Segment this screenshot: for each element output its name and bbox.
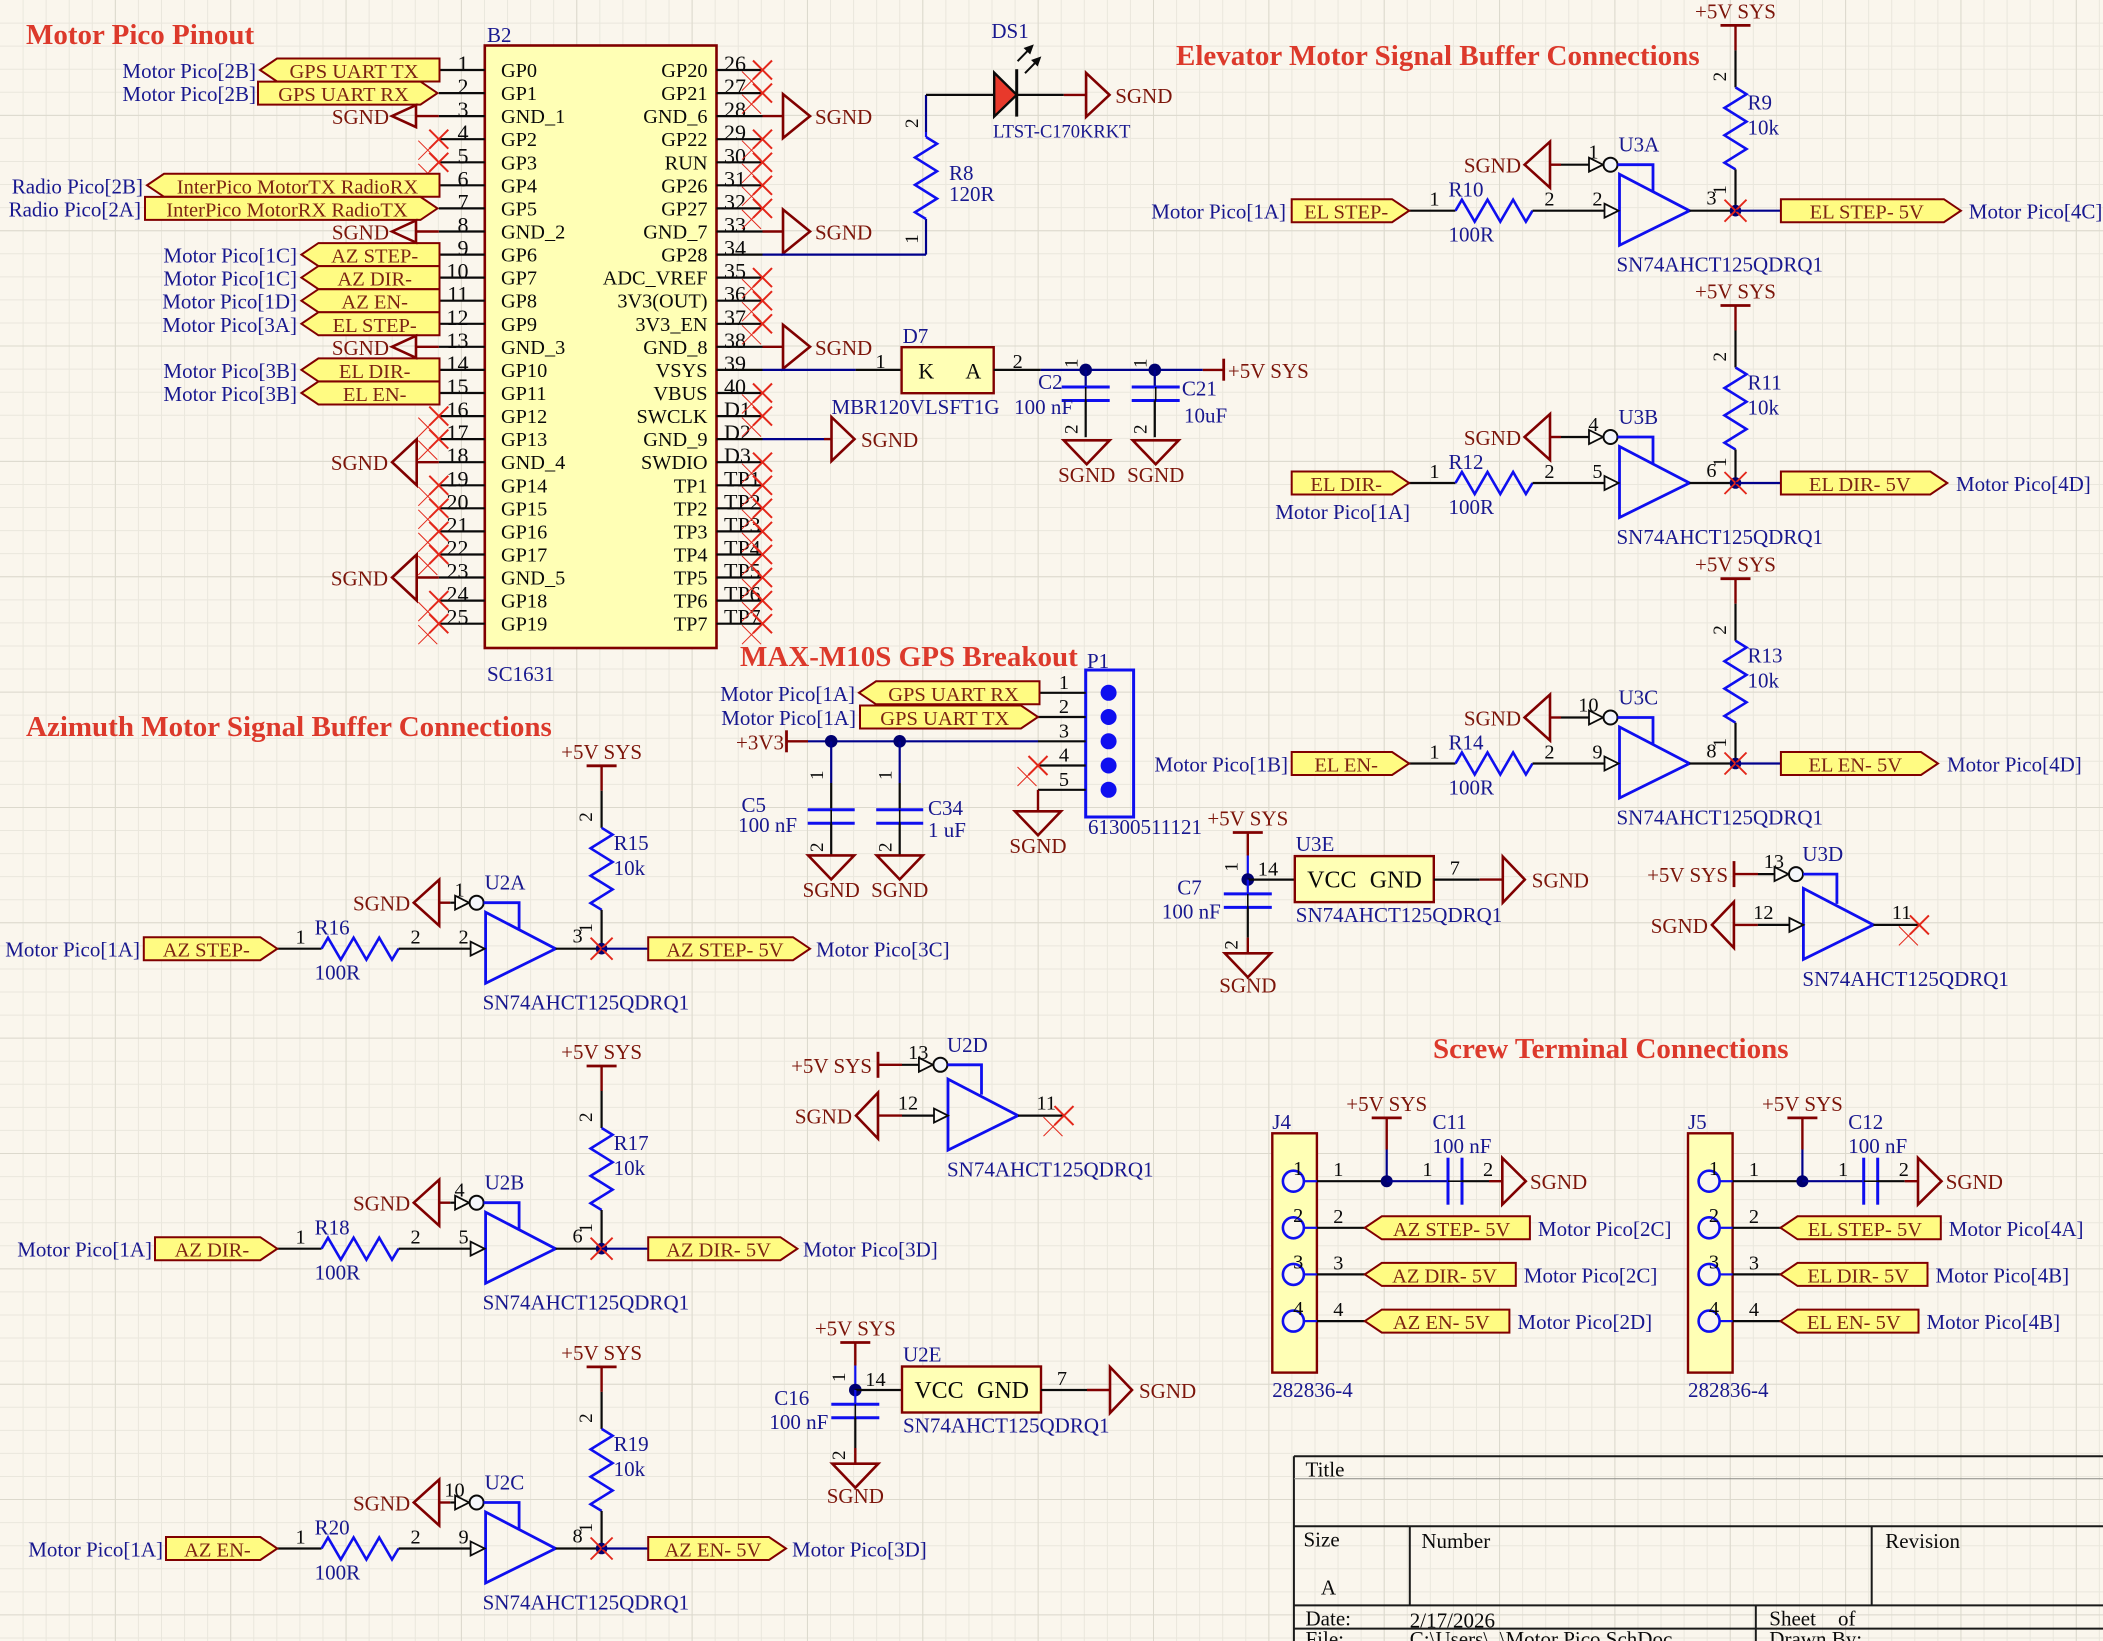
- wire pin D2 to SGND: [763, 438, 825, 440]
- svg-text:Motor Pico[1A]: Motor Pico[1A]: [1151, 200, 1286, 224]
- B2 pin D1 SWCLK: [637, 397, 763, 428]
- svg-text:SN74AHCT125QDRQ1: SN74AHCT125QDRQ1: [947, 1158, 1154, 1182]
- svg-text:SGND: SGND: [1464, 154, 1521, 178]
- wire U3B output: [1690, 460, 1736, 483]
- no-connect marker pin D3: [742, 453, 772, 483]
- B2 pin 23 GND_5: [439, 559, 565, 590]
- svg-text:Motor Pico[4B]: Motor Pico[4B]: [1936, 1263, 2070, 1287]
- svg-text:1: 1: [295, 927, 305, 949]
- B2 pin 37 3V3_EN: [635, 305, 762, 336]
- no-connect marker U2D pin 11: [1044, 1106, 1074, 1136]
- svg-text:24: 24: [447, 582, 469, 607]
- svg-text:Motor Pico[1C]: Motor Pico[1C]: [163, 244, 297, 268]
- wire SGND to U3B pin 4: [1561, 436, 1590, 438]
- svg-text:SGND: SGND: [1532, 869, 1589, 893]
- svg-text:2: 2: [875, 843, 896, 853]
- capacitor C5 100 nF: [738, 741, 855, 855]
- B2 pin 12 GP9: [439, 305, 537, 336]
- capacitor C12 100 nF: [1838, 1110, 1909, 1205]
- wire pin39 VSYS to D7: [763, 369, 902, 371]
- svg-text:GND: GND: [1370, 868, 1422, 894]
- svg-text:TP4: TP4: [674, 545, 708, 567]
- section title: Elevator Motor Signal Buffer Connections: [1176, 40, 1700, 72]
- wire +5V to U3E: [1247, 856, 1249, 880]
- junction U2A output node: [591, 938, 613, 960]
- svg-text:EL STEP-: EL STEP-: [333, 315, 417, 337]
- B2 pin 18 GND_4: [439, 443, 565, 474]
- svg-text:2: 2: [459, 927, 469, 949]
- net label Motor Pico[2B] (pin2): [122, 82, 256, 106]
- svg-text:Motor Pico[3D]: Motor Pico[3D]: [803, 1238, 938, 1262]
- svg-text:C16: C16: [774, 1386, 809, 1410]
- resistor R16 100R: [295, 916, 420, 985]
- svg-text:16: 16: [447, 397, 469, 422]
- svg-text:9: 9: [458, 236, 469, 261]
- capacitor C21 10uF: [1131, 359, 1228, 438]
- svg-text:1: 1: [876, 351, 886, 373]
- no-connect marker pin TP5: [742, 568, 772, 598]
- svg-text:GP18: GP18: [501, 591, 547, 613]
- power port SGND (pin 18): [331, 439, 439, 485]
- svg-text:C7: C7: [1177, 876, 1202, 900]
- wire U3B to port EL DIR- 5V: [1736, 482, 1781, 484]
- svg-text:1: 1: [1333, 1159, 1343, 1181]
- svg-text:SGND: SGND: [331, 451, 388, 475]
- J5 pin 2: [1699, 1205, 1759, 1239]
- no-connect marker U3D pin 11: [1899, 915, 1929, 945]
- no-connect marker pin D1: [742, 407, 772, 437]
- net label Radio Pico[2A]: [9, 197, 141, 221]
- svg-text:100R: 100R: [315, 1561, 361, 1585]
- svg-text:1: 1: [454, 880, 464, 902]
- no-connect marker pin 19: [418, 476, 448, 506]
- svg-text:100 nF: 100 nF: [1162, 900, 1221, 924]
- svg-text:SGND: SGND: [1115, 84, 1172, 108]
- svg-text:SN74AHCT125QDRQ1: SN74AHCT125QDRQ1: [1617, 525, 1824, 549]
- svg-text:SN74AHCT125QDRQ1: SN74AHCT125QDRQ1: [1617, 806, 1824, 830]
- svg-text:+5V SYS: +5V SYS: [1207, 807, 1288, 831]
- wire U3A to port EL STEP- 5V: [1736, 210, 1781, 212]
- svg-text:Motor Pico[1A]: Motor Pico[1A]: [28, 1538, 163, 1562]
- svg-text:2: 2: [458, 74, 469, 99]
- svg-text:3: 3: [1333, 1252, 1343, 1274]
- svg-text:100R: 100R: [315, 1261, 361, 1285]
- svg-text:10k: 10k: [614, 1457, 646, 1481]
- power port SGND (C5): [803, 855, 860, 902]
- port EL DIR-: [1292, 472, 1409, 497]
- B2 pin TP7 TP7: [674, 605, 763, 636]
- junction U3B output node: [1725, 472, 1747, 494]
- capacitor C2 100 nF: [1014, 359, 1110, 438]
- svg-text:InterPico MotorRX RadioTX: InterPico MotorRX RadioTX: [166, 199, 408, 221]
- wire port to R16: [277, 948, 321, 950]
- svg-text:GND_3: GND_3: [501, 337, 565, 359]
- svg-text:SWDIO: SWDIO: [641, 452, 707, 474]
- svg-text:100R: 100R: [1449, 776, 1495, 800]
- svg-text:GP10: GP10: [501, 360, 547, 382]
- svg-text:4: 4: [1333, 1299, 1343, 1321]
- B2 pin 16 GP12: [439, 397, 547, 428]
- power port SGND (C34): [871, 855, 928, 902]
- B2 pin 27 GP21: [661, 74, 762, 105]
- svg-text:Radio Pico[2A]: Radio Pico[2A]: [9, 197, 141, 221]
- svg-text:13: 13: [1764, 851, 1784, 873]
- port EL EN-: [1292, 752, 1409, 777]
- port EL STEP-: [1292, 199, 1409, 224]
- svg-text:6: 6: [458, 166, 469, 191]
- power port SGND (pin 28): [763, 94, 873, 138]
- svg-text:VCC: VCC: [1307, 868, 1356, 894]
- svg-text:U3A: U3A: [1619, 133, 1661, 157]
- no-connect marker pin 20: [418, 499, 448, 529]
- svg-text:19: 19: [447, 466, 469, 491]
- svg-text:EL STEP-: EL STEP-: [1304, 202, 1388, 224]
- wire J5 pin3 to port: [1733, 1273, 1781, 1275]
- net label Motor Pico[1A] (AZ EN-): [28, 1538, 163, 1562]
- svg-text:SN74AHCT125QDRQ1: SN74AHCT125QDRQ1: [483, 1591, 690, 1615]
- svg-text:1: 1: [1710, 738, 1731, 748]
- no-connect marker pin 17: [418, 430, 448, 460]
- svg-text:SGND: SGND: [1058, 463, 1115, 487]
- port EL STEP- 5V (J5): [1781, 1216, 1941, 1241]
- wire +5V to U3D pin 13: [1758, 873, 1775, 875]
- power pins box U2E SN74AHCT125QDRQ1: [902, 1343, 1110, 1438]
- svg-text:1: 1: [1429, 461, 1439, 483]
- net label Motor Pico[1A] (AZ STEP-): [5, 938, 140, 962]
- buffer U3C SN74AHCT125QDRQ1: [1617, 686, 1824, 830]
- power port SGND (U3B OE): [1464, 414, 1561, 460]
- svg-text:GPS UART TX: GPS UART TX: [880, 708, 1009, 730]
- no-connect marker pin 37: [742, 314, 772, 344]
- net label Motor Pico[4B] (J5 pin3): [1936, 1263, 2070, 1287]
- P1 pin 3: [1038, 720, 1117, 749]
- svg-text:C:\Users\..\Motor Pico.SchDoc: C:\Users\..\Motor Pico.SchDoc: [1410, 1627, 1673, 1641]
- svg-text:TP6: TP6: [674, 591, 708, 613]
- svg-text:R9: R9: [1748, 90, 1773, 114]
- svg-text:10: 10: [1578, 695, 1598, 717]
- svg-text:GP5: GP5: [501, 198, 537, 220]
- svg-text:TP3: TP3: [674, 521, 708, 543]
- power port +5V SYS (R17): [561, 1040, 642, 1091]
- svg-text:GP28: GP28: [661, 245, 707, 267]
- wire to U3E pin 14: [1221, 859, 1295, 881]
- svg-text:+5V SYS: +5V SYS: [561, 1341, 642, 1365]
- svg-text:TP5: TP5: [674, 568, 708, 590]
- svg-text:U2A: U2A: [485, 871, 527, 895]
- svg-text:EL DIR-: EL DIR-: [339, 361, 411, 383]
- svg-text:SGND: SGND: [1127, 463, 1184, 487]
- svg-text:Motor Pico[1A]: Motor Pico[1A]: [721, 706, 856, 730]
- B2 pin 14 GP10: [439, 351, 547, 382]
- svg-text:39: 39: [724, 351, 746, 376]
- svg-text:2: 2: [1710, 72, 1731, 82]
- svg-text:+5V SYS: +5V SYS: [815, 1317, 896, 1341]
- svg-text:2: 2: [1059, 696, 1069, 718]
- B2 pin 26 GP20: [661, 51, 762, 82]
- svg-text:Drawn By:: Drawn By:: [1769, 1627, 1862, 1641]
- svg-text:U2D: U2D: [947, 1033, 988, 1057]
- net label Motor Pico[1A] (EL DIR-): [1275, 500, 1410, 524]
- wire U3C output: [1690, 741, 1736, 764]
- svg-text:AZ STEP- 5V: AZ STEP- 5V: [1393, 1219, 1511, 1241]
- svg-text:34: 34: [724, 236, 746, 261]
- svg-text:25: 25: [447, 605, 469, 630]
- svg-text:TP7: TP7: [674, 614, 708, 636]
- svg-text:Motor Pico[2C]: Motor Pico[2C]: [1524, 1263, 1658, 1287]
- svg-text:12: 12: [1753, 902, 1773, 924]
- net label Motor Pico[3C]: [816, 938, 950, 962]
- wire port to R12: [1409, 482, 1455, 484]
- wire J4 pin2 to port: [1317, 1227, 1365, 1229]
- svg-text:R14: R14: [1449, 731, 1485, 755]
- svg-text:14: 14: [1258, 859, 1278, 881]
- port AZ DIR-: [155, 1237, 277, 1262]
- B2 pin 11 GP8: [439, 282, 537, 313]
- wire P1 pin5 to SGND: [1037, 790, 1039, 812]
- B2 pin 10 GP7: [439, 259, 537, 290]
- power port SGND (U2B OE): [353, 1180, 450, 1226]
- svg-text:5: 5: [458, 143, 469, 168]
- svg-text:GP12: GP12: [501, 406, 547, 428]
- port EL EN- 5V: [1781, 752, 1938, 777]
- svg-text:Motor Pico Pinout: Motor Pico Pinout: [26, 19, 255, 51]
- wire U3A output: [1690, 188, 1736, 211]
- no-connect marker pin 36: [742, 291, 772, 321]
- wire J4 pin4 to port: [1317, 1320, 1365, 1322]
- net label Motor Pico[1A] (AZ DIR-): [17, 1238, 152, 1262]
- port AZ DIR- 5V (J4): [1365, 1263, 1516, 1288]
- svg-text:2: 2: [1483, 1159, 1493, 1181]
- svg-text:AZ EN-: AZ EN-: [341, 292, 408, 314]
- svg-text:SGND: SGND: [1651, 914, 1708, 938]
- wire port to R10: [1409, 210, 1455, 212]
- power port +5V SYS (J5): [1762, 1092, 1843, 1150]
- svg-text:3V3(OUT): 3V3(OUT): [617, 291, 707, 313]
- svg-text:10k: 10k: [614, 1156, 646, 1180]
- wire +5V to U2E: [854, 1366, 856, 1391]
- junction J5 pin1 node: [1796, 1175, 1808, 1187]
- port GPS UART TX: [260, 59, 440, 84]
- power port +5V SYS (R11): [1695, 280, 1776, 331]
- svg-text:AZ STEP-: AZ STEP-: [163, 940, 250, 962]
- svg-text:Motor Pico[1A]: Motor Pico[1A]: [17, 1238, 152, 1262]
- svg-text:SGND: SGND: [815, 105, 872, 129]
- svg-text:SGND: SGND: [795, 1105, 852, 1129]
- svg-text:Motor Pico[3D]: Motor Pico[3D]: [792, 1538, 927, 1562]
- svg-text:P1: P1: [1087, 649, 1109, 673]
- svg-text:VBUS: VBUS: [653, 383, 707, 405]
- svg-text:1: 1: [1061, 359, 1082, 369]
- svg-text:12: 12: [447, 305, 469, 330]
- net label Motor Pico[4B] (J5 pin4): [1927, 1310, 2061, 1334]
- B2 pin 8 GND_2: [439, 213, 565, 244]
- power port SGND (J4): [1502, 1158, 1587, 1205]
- connector P1 61300511121 body: [1086, 649, 1202, 839]
- power port SGND (DS1): [1064, 73, 1173, 117]
- port AZ STEP-: [144, 937, 277, 962]
- wire U2C output: [556, 1526, 602, 1549]
- no-connect marker pin 22: [418, 545, 448, 575]
- svg-text:SN74AHCT125QDRQ1: SN74AHCT125QDRQ1: [1802, 967, 2009, 991]
- buffer U3D SN74AHCT125QDRQ1: [1802, 842, 2009, 991]
- wire SGND to U2D pin 12: [902, 1114, 934, 1116]
- resistor R12 100R: [1429, 450, 1554, 519]
- svg-text:4: 4: [1709, 1298, 1719, 1320]
- svg-text:B2: B2: [487, 23, 512, 47]
- power port SGND (pin D2): [824, 417, 918, 461]
- port InterPico MotorTX RadioRX: [147, 174, 440, 199]
- component B2 Raspberry Pi Pico body SC1631: [485, 46, 717, 649]
- svg-text:1: 1: [1422, 1159, 1432, 1181]
- wire SGND to U2A pin 1: [450, 902, 455, 904]
- power port SGND (U3C OE): [1464, 695, 1561, 741]
- B2 pin 2 GP1: [439, 74, 537, 105]
- svg-text:AZ DIR- 5V: AZ DIR- 5V: [666, 1240, 771, 1262]
- svg-text:+5V SYS: +5V SYS: [1228, 359, 1309, 383]
- wire U2E pin 7 to SGND: [1041, 1368, 1110, 1390]
- B2 pin 19 GP14: [439, 466, 547, 497]
- svg-text:2: 2: [1333, 1206, 1343, 1228]
- svg-text:R10: R10: [1449, 178, 1484, 202]
- B2 pin D2 GND_9: [643, 420, 762, 451]
- section title: Motor Pico Pinout: [26, 19, 255, 51]
- B2 pin TP3 TP3: [674, 512, 763, 543]
- power port +3V3: [736, 730, 808, 754]
- svg-text:RUN: RUN: [665, 152, 708, 174]
- U3A OE pin 1 bubble: [1588, 142, 1617, 172]
- wire D7 anode to +5V SYS: [994, 369, 1203, 371]
- wire +5V to U2D pin 13: [902, 1064, 919, 1066]
- B2 pin 21 GP16: [439, 512, 547, 543]
- svg-text:+5V SYS: +5V SYS: [1762, 1092, 1843, 1116]
- wire U2A to port AZ STEP- 5V: [602, 948, 649, 950]
- B2 pin 13 GND_3: [439, 328, 565, 359]
- svg-text:1: 1: [1429, 189, 1439, 211]
- svg-text:C11: C11: [1433, 1110, 1467, 1134]
- svg-text:17: 17: [447, 420, 469, 445]
- power port +5V SYS (U2D): [791, 1052, 902, 1078]
- svg-text:1 uF: 1 uF: [928, 818, 966, 842]
- U2D input pin 12: [898, 1093, 948, 1123]
- wire U3D output pin 11: [1873, 902, 1919, 925]
- svg-text:GND_6: GND_6: [643, 106, 707, 128]
- power port SGND (C21): [1127, 440, 1184, 487]
- svg-text:R16: R16: [315, 916, 350, 940]
- svg-text:Motor Pico[4D]: Motor Pico[4D]: [1947, 753, 2082, 777]
- no-connect marker P1 pin 4: [1018, 756, 1048, 786]
- B2 pin 20 GP15: [439, 489, 547, 520]
- no-connect marker pin TP2: [742, 499, 772, 529]
- port AZ STEP- 5V (J4): [1365, 1216, 1530, 1241]
- net label Motor Pico[2C] (J4 pin2): [1538, 1217, 1672, 1241]
- svg-text:GP6: GP6: [501, 245, 537, 267]
- svg-text:Elevator Motor Signal Buffer C: Elevator Motor Signal Buffer Connections: [1176, 40, 1700, 72]
- svg-text:EL EN-: EL EN-: [343, 384, 407, 406]
- svg-text:K: K: [918, 359, 934, 384]
- no-connect marker pin 4: [418, 130, 448, 160]
- power port +5V SYS (R15): [561, 740, 642, 791]
- no-connect marker pin TP3: [742, 522, 772, 552]
- svg-text:1: 1: [1709, 1158, 1719, 1180]
- B2 pin 31 GP26: [661, 166, 762, 197]
- power port SGND (J5): [1918, 1158, 2003, 1205]
- svg-text:2: 2: [1899, 1159, 1909, 1181]
- power port +5V SYS (R19): [561, 1341, 642, 1392]
- wire R18 to U2B pin 5: [399, 1248, 471, 1250]
- power port SGND (pin 23): [331, 555, 439, 601]
- svg-text:100 nF: 100 nF: [1014, 395, 1073, 419]
- junction C21 tap: [1149, 364, 1162, 377]
- net label Motor Pico[2D] (J4 pin4): [1517, 1310, 1652, 1334]
- svg-text:A: A: [965, 359, 981, 384]
- svg-text:2: 2: [1131, 425, 1152, 435]
- net label Motor Pico[4A] (J5 pin2): [1949, 1217, 2084, 1241]
- net label Motor Pico[1C] (pin 9): [163, 244, 297, 268]
- net label Motor Pico[3D] (AZ DIR- 5V): [803, 1238, 938, 1262]
- U3B input pin 5: [1592, 461, 1618, 490]
- svg-text:5: 5: [459, 1227, 469, 1249]
- svg-text:GP27: GP27: [661, 198, 707, 220]
- svg-text:100R: 100R: [1449, 223, 1495, 247]
- svg-text:GND_9: GND_9: [643, 429, 707, 451]
- net label Motor Pico[4D] (EL DIR- 5V): [1956, 472, 2091, 496]
- svg-text:EL DIR- 5V: EL DIR- 5V: [1807, 1265, 1909, 1287]
- resistor R18 100R: [295, 1216, 420, 1285]
- port AZ EN-: [166, 1537, 277, 1562]
- svg-text:2: 2: [1710, 625, 1731, 635]
- svg-text:2: 2: [1749, 1206, 1759, 1228]
- svg-text:GND_4: GND_4: [501, 452, 565, 474]
- svg-text:AZ EN- 5V: AZ EN- 5V: [665, 1540, 762, 1562]
- B2 pin 38 GND_8: [643, 328, 762, 359]
- power port +5V SYS (VSYS rail): [1203, 359, 1309, 383]
- svg-text:ADC_VREF: ADC_VREF: [603, 268, 708, 290]
- wire U2C to port AZ EN- 5V: [602, 1547, 649, 1549]
- section title: MAX-M10S GPS Breakout: [740, 641, 1078, 673]
- svg-text:Motor Pico[2B]: Motor Pico[2B]: [122, 59, 256, 83]
- svg-text:GND_8: GND_8: [643, 337, 707, 359]
- svg-text:R18: R18: [315, 1216, 350, 1240]
- resistor R13 10k: [1710, 604, 1783, 764]
- svg-text:+5V SYS: +5V SYS: [1695, 0, 1776, 23]
- section title: Screw Terminal Connections: [1433, 1033, 1789, 1065]
- svg-text:33: 33: [724, 213, 746, 238]
- buffer U3B SN74AHCT125QDRQ1: [1617, 405, 1824, 549]
- U2B input pin 5: [459, 1227, 485, 1256]
- svg-text:Motor Pico[2C]: Motor Pico[2C]: [1538, 1217, 1672, 1241]
- power port SGND (C2): [1058, 440, 1115, 487]
- svg-text:21: 21: [447, 512, 469, 537]
- svg-text:GP1: GP1: [501, 83, 537, 105]
- svg-text:3: 3: [1709, 1251, 1719, 1273]
- svg-text:+3V3: +3V3: [736, 730, 784, 754]
- svg-text:VCC: VCC: [914, 1378, 963, 1404]
- svg-text:R15: R15: [614, 831, 649, 855]
- svg-text:SN74AHCT125QDRQ1: SN74AHCT125QDRQ1: [483, 991, 690, 1015]
- svg-text:1: 1: [875, 771, 896, 781]
- buffer U2C SN74AHCT125QDRQ1: [483, 1471, 690, 1615]
- no-connect marker pin 30: [742, 153, 772, 183]
- svg-text:EL DIR- 5V: EL DIR- 5V: [1809, 474, 1911, 496]
- wire SGND to U3C pin 10: [1561, 716, 1590, 718]
- svg-text:SGND: SGND: [1139, 1379, 1196, 1403]
- svg-text:2: 2: [1293, 1205, 1303, 1227]
- U3B OE pin 4 bubble: [1588, 414, 1617, 444]
- svg-text:GP15: GP15: [501, 498, 547, 520]
- resistor R17 10k: [576, 1091, 649, 1249]
- svg-text:EL EN-: EL EN-: [1314, 755, 1378, 777]
- port EL STEP-: [301, 312, 439, 337]
